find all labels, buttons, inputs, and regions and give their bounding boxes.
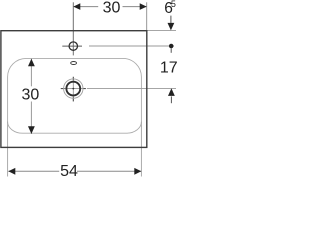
- svg-text:30: 30: [22, 87, 40, 104]
- svg-text:54: 54: [60, 163, 78, 180]
- svg-text:17: 17: [160, 60, 178, 77]
- svg-text:30: 30: [103, 0, 121, 17]
- svg-text:5: 5: [171, 0, 176, 9]
